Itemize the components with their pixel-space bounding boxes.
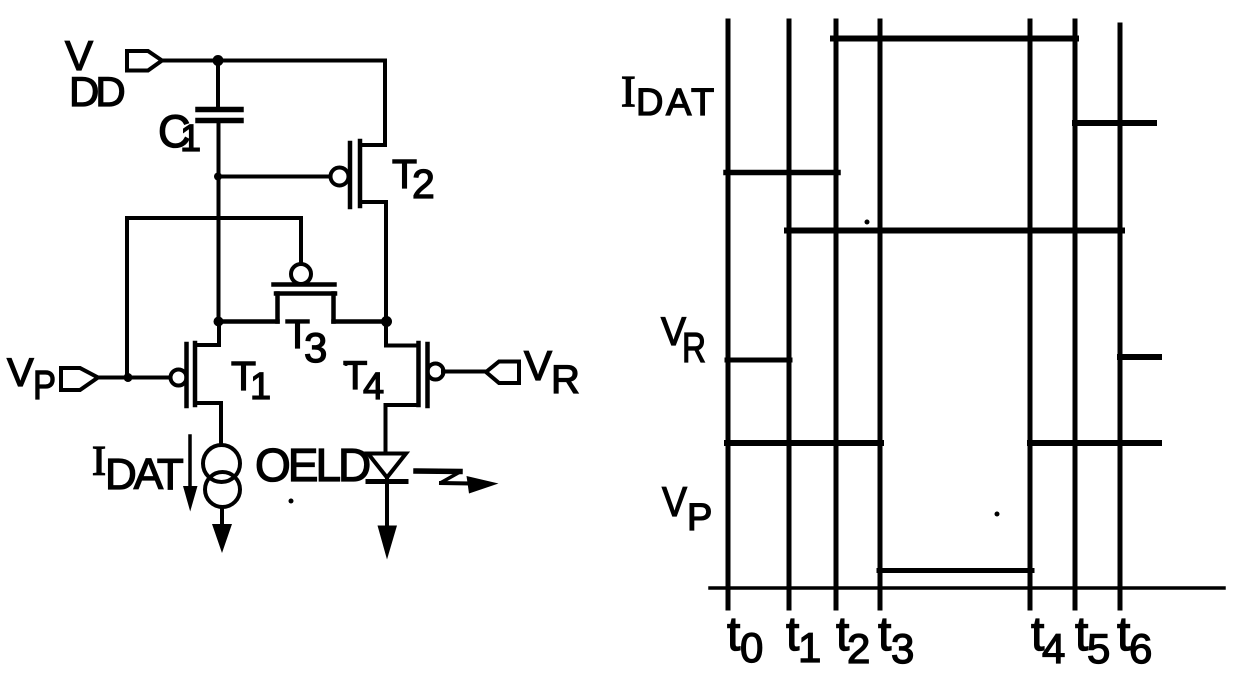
axis time — [710, 586, 1224, 590]
svg-text:OELD: OELD — [255, 439, 370, 491]
wire VDD rail — [162, 59, 385, 63]
svg-text:I: I — [621, 67, 636, 116]
svg-text:P: P — [33, 362, 56, 408]
transistor T2 — [331, 168, 349, 186]
timeline t5 — [1073, 21, 1078, 608]
svg-text:P: P — [687, 497, 712, 539]
svg-text:4: 4 — [363, 366, 384, 408]
label IDAT right — [621, 67, 717, 124]
label VP right — [662, 478, 712, 539]
svg-text:4: 4 — [1042, 625, 1065, 672]
svg-text:t: t — [878, 608, 891, 661]
waveform IDAT mid — [1075, 120, 1154, 126]
label VP — [7, 351, 56, 408]
speck — [344, 362, 348, 366]
transistor T3 — [291, 264, 311, 284]
label t5 — [1075, 608, 1110, 672]
wire rail left — [218, 319, 278, 324]
waveform VP low — [879, 568, 1032, 573]
waveform VP high1 — [727, 440, 881, 446]
svg-text:2: 2 — [847, 625, 870, 672]
label OELD — [255, 439, 370, 491]
svg-text:3: 3 — [304, 324, 327, 371]
arrow to ground left — [212, 524, 232, 553]
svg-text:DD: DD — [69, 68, 124, 115]
svg-text:6: 6 — [1129, 625, 1152, 672]
arrow IDAT direction — [188, 436, 192, 489]
label T4 — [343, 354, 384, 408]
label t3 — [878, 608, 914, 672]
transistor T1 — [171, 370, 187, 386]
label T3 — [285, 311, 327, 371]
terminal pad VP — [61, 368, 98, 390]
node gate junction dot — [214, 173, 222, 181]
node rail-left junction dot — [214, 317, 224, 327]
waveform IDAT high — [833, 36, 1076, 42]
waveform VP high2 — [1030, 440, 1159, 446]
label t6 — [1117, 608, 1152, 672]
waveform IDAT low — [726, 170, 838, 176]
timeline t2 — [834, 21, 839, 608]
speck — [995, 512, 1000, 517]
svg-text:V: V — [524, 342, 552, 389]
timeline t0 — [726, 21, 731, 608]
label VR right — [661, 310, 706, 371]
terminal pad VDD — [127, 51, 162, 71]
svg-text:I: I — [92, 439, 106, 485]
svg-text:V: V — [662, 478, 687, 525]
svg-text:1: 1 — [250, 366, 271, 408]
label VDD — [65, 32, 124, 115]
svg-text:5: 5 — [1087, 625, 1110, 672]
transistor T4 — [428, 364, 444, 380]
diode OELD — [368, 454, 406, 478]
waveform VR low2 — [1120, 354, 1159, 360]
arrow light emission — [416, 468, 460, 474]
svg-text:2: 2 — [412, 161, 435, 207]
label VR — [524, 342, 580, 402]
svg-text:DAT: DAT — [105, 450, 183, 499]
wire rail right — [334, 319, 388, 324]
svg-text:DAT: DAT — [636, 82, 717, 124]
node VDD junction dot — [213, 55, 224, 66]
timeline t1 — [787, 21, 792, 608]
wire below current source — [220, 507, 224, 527]
capacitor C1 — [198, 107, 241, 113]
label T1 — [231, 353, 271, 408]
speck — [865, 220, 870, 225]
waveform VR high — [787, 228, 1122, 234]
svg-text:R: R — [551, 358, 580, 402]
timeline t4 — [1028, 21, 1033, 608]
timeline t3 — [878, 21, 883, 608]
arrow to ground right — [378, 526, 398, 560]
terminal pad VR — [486, 362, 519, 384]
label IDAT left — [92, 439, 183, 499]
wire T4 gate to VR — [443, 370, 487, 374]
svg-text:t: t — [727, 608, 740, 661]
wire VP feedback to T3 gate — [127, 218, 301, 378]
svg-text:1: 1 — [798, 624, 821, 671]
svg-text:V: V — [7, 351, 34, 395]
wire C1 to gate node rail — [217, 121, 221, 322]
node rail-right junction dot — [381, 316, 392, 327]
svg-text:0: 0 — [740, 624, 763, 671]
label t4 — [1031, 608, 1065, 672]
label t2 — [836, 608, 870, 672]
current source IDAT — [203, 445, 240, 482]
wire VP to T1 gate — [99, 376, 171, 380]
label T2 — [392, 151, 435, 207]
label t0 — [727, 608, 763, 671]
svg-text:1: 1 — [180, 118, 201, 160]
waveform VR low1 — [727, 358, 790, 363]
wire gate node to T2 gate — [218, 175, 330, 179]
svg-text:3: 3 — [891, 625, 914, 672]
label C1 — [158, 106, 201, 160]
node VP junction dot — [124, 373, 133, 382]
speck — [289, 499, 294, 504]
svg-text:R: R — [682, 324, 706, 371]
label t1 — [786, 608, 821, 671]
timeline t6 — [1118, 25, 1123, 608]
wire VDD to C1 — [216, 61, 220, 107]
